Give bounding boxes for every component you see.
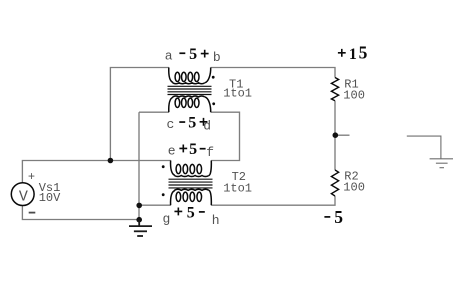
svg-text:V: V <box>19 188 28 205</box>
svg-text:5: 5 <box>187 204 195 221</box>
svg-text:10V: 10V <box>39 191 61 205</box>
svg-text:1to1: 1to1 <box>223 86 252 100</box>
svg-text:1to1: 1to1 <box>223 182 252 196</box>
wire node B stub right <box>335 134 349 136</box>
node B junction dot <box>333 132 339 138</box>
label polarity e-f plus 5 minus <box>179 141 205 158</box>
wire T1 secondary left (c) to left vertical <box>139 111 169 113</box>
svg-text:a: a <box>165 48 173 63</box>
wire T2 secondary left (g) to left vertical <box>139 204 171 206</box>
svg-text:c: c <box>167 117 175 132</box>
svg-text:f: f <box>206 145 214 160</box>
node voltage -5 <box>324 207 343 227</box>
wire T1 primary right to +15 rail and down to R1 <box>211 68 335 78</box>
wire bottom rail to source minus <box>22 205 139 219</box>
svg-text:5: 5 <box>189 46 197 63</box>
svg-text:h: h <box>212 213 220 228</box>
node A junction dot <box>108 158 114 164</box>
transformer T2 secondary winding <box>171 189 212 205</box>
svg-text:100: 100 <box>343 180 365 194</box>
transformer T1 secondary winding <box>169 96 211 112</box>
ground symbol bottom <box>129 220 152 237</box>
wire T1 secondary right (d) down and left to T2 primary right (f) <box>211 112 240 160</box>
wire R1 bottom to node B <box>334 101 336 135</box>
svg-text:+: + <box>28 170 35 184</box>
wire node B down to R2 top <box>334 135 336 170</box>
transformer T2 primary winding <box>171 161 212 177</box>
svg-text:d: d <box>203 119 211 134</box>
wire source plus up and right to node A <box>22 161 110 184</box>
voltage source minus sign <box>29 212 36 214</box>
transformer T1 core lines <box>168 86 212 94</box>
transformer T2 core lines <box>169 179 213 188</box>
transformer T2 phase dot secondary <box>162 193 165 196</box>
svg-text:5: 5 <box>359 43 368 63</box>
svg-text:5: 5 <box>334 207 343 227</box>
transformer T1 primary winding <box>169 68 211 84</box>
junction dot g node <box>136 203 142 209</box>
svg-text:1: 1 <box>349 46 357 63</box>
resistor R2 <box>331 170 338 196</box>
wire node A right to T2 primary left (e) <box>110 160 170 162</box>
junction dot bottom rail <box>136 217 142 223</box>
wire node A up to top-left corner and right to T1 primary left <box>110 68 168 161</box>
transformer T1 phase dot secondary <box>212 102 215 105</box>
svg-text:5: 5 <box>189 141 197 158</box>
wire left vertical c to g node to bottom rail <box>138 112 140 219</box>
resistor R1 <box>331 78 338 101</box>
svg-text:100: 100 <box>343 88 365 102</box>
label polarity c-d minus 5 plus <box>179 114 207 131</box>
svg-text:5: 5 <box>188 114 196 131</box>
transformer T1 phase dot primary <box>212 76 215 79</box>
label polarity a-b minus 5 plus <box>179 46 208 63</box>
label polarity g-h plus 5 minus <box>174 204 204 221</box>
floating ground right <box>407 136 453 168</box>
transformer T2 phase dot primary <box>162 165 165 168</box>
wire R2 bottom left to T2 secondary right (h) <box>211 196 335 205</box>
node voltage +15 <box>338 43 368 63</box>
svg-text:g: g <box>163 212 171 227</box>
svg-text:b: b <box>213 50 221 65</box>
voltage source Vs1 circle <box>11 183 34 206</box>
svg-text:e: e <box>168 143 176 158</box>
